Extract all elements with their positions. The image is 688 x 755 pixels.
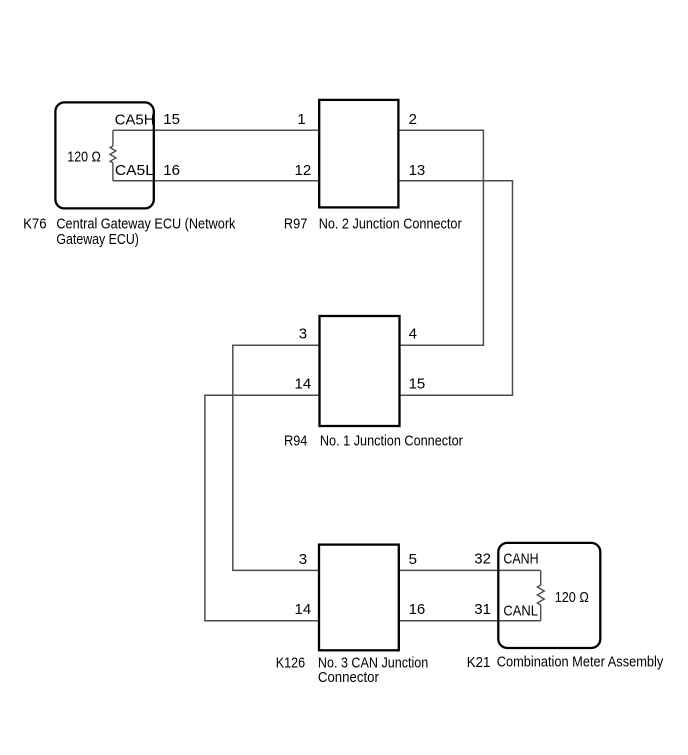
svg-text:31: 31 (474, 601, 491, 618)
svg-text:Connector: Connector (318, 669, 379, 686)
svg-text:CANH: CANH (503, 550, 538, 567)
wire K126 pin 16 to K21 pin 31 CANL (399, 620, 541, 622)
wire CA5H/CANH bus: K76 pin 15 to R97 pin 1 (113, 129, 319, 131)
wire R97 pin 2 to R94 pin 4 (398, 130, 483, 345)
junction connector box R97 (319, 100, 398, 207)
meter box K21 (498, 543, 600, 648)
wire R94 pin 3 to K126 pin 3 (233, 345, 320, 570)
svg-text:R97: R97 (284, 215, 307, 232)
wire R97 pin 13 to R94 pin 15 (398, 181, 512, 395)
svg-text:5: 5 (409, 551, 417, 568)
svg-text:4: 4 (409, 325, 417, 342)
svg-text:Combination Meter Assembly: Combination Meter Assembly (497, 654, 664, 671)
resistor R 120 ohm inside K76 (terminating resistor) (110, 130, 116, 181)
resistor R 120 ohm inside K21 (terminating resistor) (537, 570, 544, 620)
svg-text:32: 32 (474, 550, 491, 567)
ECU box K76 (55, 102, 153, 208)
svg-text:14: 14 (295, 375, 312, 392)
junction connector box K126 (319, 545, 399, 651)
junction connector box R94 (320, 316, 400, 426)
svg-text:Gateway ECU): Gateway ECU) (56, 231, 139, 248)
svg-text:120 Ω: 120 Ω (67, 148, 101, 165)
svg-text:3: 3 (299, 551, 307, 568)
svg-text:K21: K21 (467, 654, 491, 671)
wire K126 pin 5 to K21 pin 32 CANH (399, 569, 541, 571)
svg-text:12: 12 (295, 162, 312, 179)
svg-text:16: 16 (163, 162, 180, 179)
svg-text:15: 15 (163, 111, 180, 128)
svg-text:2: 2 (409, 111, 417, 128)
wire R94 pin 14 to K126 pin 14 (205, 395, 320, 620)
svg-text:15: 15 (409, 375, 426, 392)
svg-text:CANL: CANL (503, 602, 538, 619)
svg-text:Central Gateway ECU (Network: Central Gateway ECU (Network (56, 215, 235, 232)
svg-text:13: 13 (409, 162, 426, 179)
svg-text:14: 14 (295, 601, 312, 618)
svg-text:No. 1 Junction Connector: No. 1 Junction Connector (320, 433, 463, 450)
svg-text:120 Ω: 120 Ω (555, 589, 589, 606)
svg-text:3: 3 (299, 325, 307, 342)
wire CA5L/CANL bus: K76 pin 16 to R97 pin 12 (113, 180, 319, 182)
svg-text:CA5H: CA5H (115, 112, 155, 129)
svg-text:16: 16 (409, 601, 426, 618)
svg-text:CA5L: CA5L (115, 162, 154, 179)
svg-text:No. 2 Junction Connector: No. 2 Junction Connector (319, 215, 462, 232)
svg-text:1: 1 (297, 111, 305, 128)
svg-text:K126: K126 (276, 654, 305, 671)
svg-text:K76: K76 (23, 215, 46, 232)
svg-text:R94: R94 (284, 433, 307, 450)
